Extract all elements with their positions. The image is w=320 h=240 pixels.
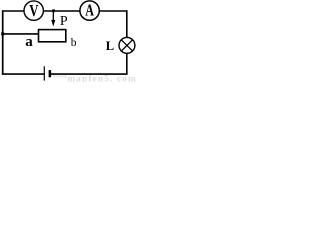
lamp cross xyxy=(121,40,132,51)
wire ammeter to top-right corner xyxy=(99,10,127,12)
rheostat body rectangle xyxy=(39,30,66,42)
wire top-left horizontal xyxy=(3,10,24,12)
svg-text:a: a xyxy=(25,34,33,50)
wire to rheostat terminal a xyxy=(3,33,39,35)
lamp circle xyxy=(119,37,135,53)
watermark bar xyxy=(53,76,67,78)
svg-text:L: L xyxy=(106,39,114,53)
node junction on left wire xyxy=(1,32,4,35)
wire bottom left xyxy=(2,73,45,75)
battery thin plate xyxy=(43,66,45,80)
svg-text:P: P xyxy=(60,14,68,29)
voltmeter circle xyxy=(24,1,43,20)
slider arrowhead xyxy=(51,20,55,27)
svg-text:b: b xyxy=(71,37,77,49)
wire right vertical upper xyxy=(126,10,128,37)
wire right vertical lower xyxy=(126,54,128,75)
svg-text:V: V xyxy=(29,2,38,20)
wire between voltmeter and ammeter xyxy=(43,10,80,12)
svg-text:A: A xyxy=(85,2,94,20)
ammeter circle xyxy=(80,1,99,20)
wire left vertical xyxy=(2,10,4,74)
battery thick plate xyxy=(49,70,52,77)
node junction slider tap xyxy=(52,9,55,12)
wire bottom right xyxy=(51,73,128,75)
watermark slash xyxy=(52,73,56,77)
slider wire vertical xyxy=(52,11,54,21)
